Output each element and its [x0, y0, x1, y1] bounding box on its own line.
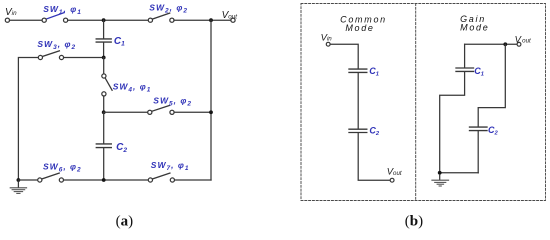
terminal Vout common-mode [390, 178, 394, 182]
wire bottom row left [18, 179, 37, 181]
capacitor C1 common-mode [349, 69, 367, 72]
wire Vin to C1 branch [330, 44, 358, 68]
capacitor C2 common-mode [349, 129, 367, 132]
wire C2 top lead [103, 112, 105, 143]
wire C2 bottom lead gain-mode [477, 131, 479, 173]
node junction SW5 / right rail [209, 110, 213, 114]
node junction C1 top [102, 18, 106, 22]
node junction top-right rail [209, 18, 213, 22]
switch SW2 [148, 13, 174, 22]
wire SW4 bottom lead [103, 96, 105, 112]
wire C1 bottom lead [103, 43, 105, 58]
wire bottom row right [175, 179, 212, 181]
wire SW5 to right rail [174, 111, 211, 113]
switch SW4 [102, 74, 112, 96]
wire Vout junction down to C2 gain-mode [478, 44, 505, 126]
node junction SW4 bottom / C2 top [102, 110, 106, 114]
dashed frame panel b [301, 4, 546, 201]
wire SW5 row left [104, 111, 148, 113]
wire SW2 to Vout [174, 19, 231, 21]
node junction gain-mode top [503, 42, 507, 46]
capacitor C1 gain-mode [456, 68, 474, 71]
switch SW7 [148, 173, 174, 182]
wire right rail [210, 20, 212, 180]
terminal Vout [231, 18, 235, 22]
wire C1 to C2 common-mode [357, 73, 359, 129]
wire C2 to Vout common-mode [358, 133, 390, 180]
wire SW3 to C1 bottom node [64, 57, 104, 59]
wire gain-mode bottom rail [440, 172, 479, 174]
capacitor C2 gain-mode [470, 127, 488, 131]
wire C1 top lead gain-mode [464, 44, 466, 67]
switch SW3 [38, 51, 63, 60]
node junction ground gain-mode [438, 171, 442, 175]
terminal Vout gain-mode [517, 42, 521, 46]
switch SW5 [148, 105, 174, 114]
svg-text:Mode: Mode [345, 23, 374, 33]
node junction ground / bottom row [17, 178, 21, 182]
capacitor C1 [96, 39, 111, 42]
capacitor C2 [96, 144, 111, 148]
terminal Vin [5, 18, 9, 22]
wire C1 top lead [103, 20, 105, 38]
node junction C1 bottom / SW4 top [102, 56, 106, 60]
wire gain-mode top rail [465, 43, 517, 45]
wire SW1 to SW2 [68, 19, 149, 21]
terminal Vin common-mode [326, 42, 330, 46]
wire SW4 top lead [103, 58, 105, 74]
svg-text:Mode: Mode [460, 23, 489, 33]
wire C2 bottom lead [103, 148, 105, 180]
ground symbol panel a [10, 182, 26, 194]
wire bottom row middle [64, 179, 149, 181]
wire SW3 row left [18, 58, 38, 181]
switch SW6 [38, 173, 64, 182]
wire Vin to SW1 [10, 19, 43, 21]
wire C1 bottom to ground branch gain-mode [440, 72, 465, 173]
dashed divider between modes [415, 4, 417, 201]
switch SW1 [42, 13, 68, 23]
node junction C2 bottom [102, 178, 106, 182]
svg-text:(b): (b) [405, 214, 423, 230]
ground symbol gain-mode [432, 175, 449, 186]
svg-text:(a): (a) [116, 214, 133, 230]
